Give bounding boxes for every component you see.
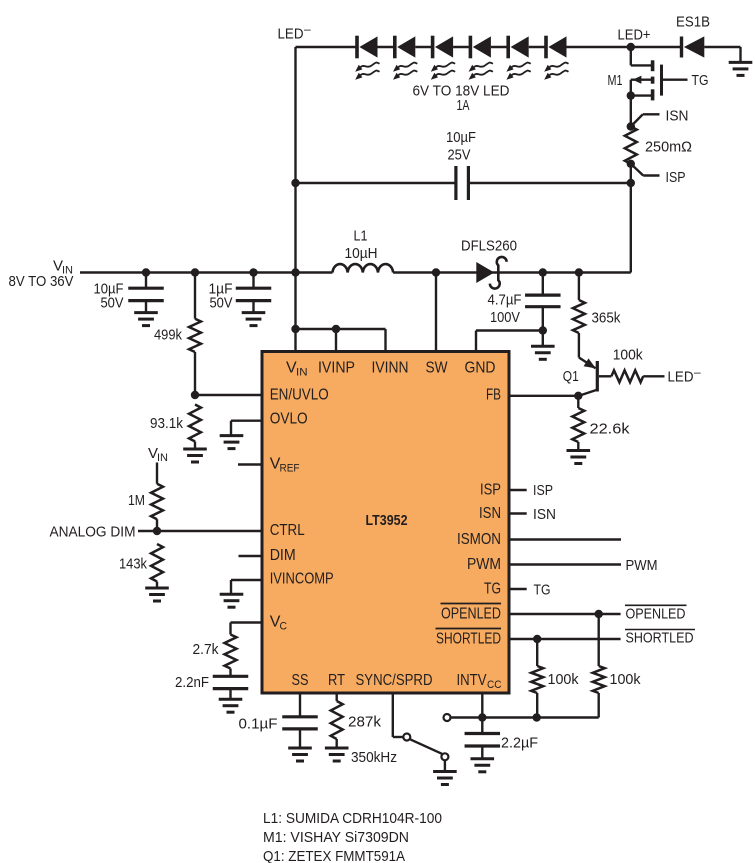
- resistor 93.1k UVLO bottom: [150, 405, 201, 450]
- wire LED- rail down to VIN pin: [294, 47, 296, 352]
- svg-text:LT3952: LT3952: [366, 512, 408, 529]
- svg-text:Q1: ZETEX FMMT591A: Q1: ZETEX FMMT591A: [263, 848, 405, 863]
- wire M1 source to ISN: [630, 96, 632, 127]
- LED D3: [431, 36, 455, 80]
- wire ISP stub: [509, 482, 553, 499]
- svg-text:LED+: LED+: [618, 27, 651, 44]
- node ANALOG DIM: [50, 524, 162, 541]
- node ISN sense: [627, 108, 689, 131]
- svg-text:PWM: PWM: [467, 556, 501, 573]
- svg-text:SW: SW: [426, 360, 449, 377]
- wire ISMON: [509, 538, 621, 540]
- svg-text:100V: 100V: [490, 309, 520, 326]
- inductor L1 10uH: [333, 228, 394, 273]
- transistor Q1 PNP FMMT591A: [563, 358, 612, 397]
- LED D4: [469, 36, 493, 80]
- svg-text:2.7k: 2.7k: [193, 641, 219, 658]
- capacitor 10uF 50V input: [94, 273, 164, 326]
- LED D6: [544, 36, 568, 80]
- svg-text:LED: LED: [668, 369, 694, 386]
- resistor 287k RT: [331, 693, 397, 766]
- switch SYNC/SPRD: [393, 693, 449, 760]
- ground at 2.2nF: [219, 699, 243, 712]
- diode DFLS260 schottky: [461, 238, 517, 289]
- svg-text:499k: 499k: [154, 327, 182, 344]
- svg-text:C: C: [280, 621, 288, 633]
- svg-text:ISP: ISP: [533, 482, 553, 499]
- ground at RT: [325, 748, 349, 761]
- svg-text:ISMON: ISMON: [457, 531, 501, 548]
- svg-text:CC: CC: [487, 679, 502, 691]
- svg-text:2.2nF: 2.2nF: [175, 674, 209, 691]
- ground at 93.1k: [183, 449, 207, 462]
- capacitor 2.2uF INTVCC: [465, 718, 538, 759]
- svg-text:1M: 1M: [128, 492, 145, 509]
- svg-text:–: –: [694, 365, 701, 379]
- svg-text:L1: L1: [354, 228, 368, 245]
- resistor 100k base: [611, 347, 664, 383]
- svg-text:IN: IN: [296, 367, 308, 379]
- capacitor 2.2nF VC: [175, 674, 248, 699]
- ground at IVINCOMP: [220, 580, 262, 607]
- svg-text:50V: 50V: [101, 295, 124, 312]
- wire GND pin: [476, 326, 547, 351]
- capacitor 1uF 50V input: [209, 273, 272, 326]
- svg-text:TG: TG: [534, 582, 551, 599]
- svg-text:SHORTLED: SHORTLED: [626, 630, 694, 647]
- svg-text:M1: VISHAY Si7309DN: M1: VISHAY Si7309DN: [263, 829, 409, 846]
- resistor 143k dim bottom: [119, 544, 163, 588]
- svg-text:TG: TG: [692, 72, 709, 89]
- ground at 2.2uF: [471, 759, 495, 772]
- svg-text:1A: 1A: [457, 97, 470, 114]
- wire INTVCC rail: [444, 693, 599, 722]
- svg-text:IVINN: IVINN: [372, 360, 409, 377]
- node ISP sense: [627, 160, 686, 186]
- svg-text:CTRL: CTRL: [270, 522, 305, 539]
- capacitor 4.7uF 100V output: [488, 268, 561, 330]
- ground at switch: [433, 760, 457, 784]
- svg-text:2.2µF: 2.2µF: [501, 735, 538, 752]
- transistor M1 PMOS Si7309DN: [608, 47, 688, 100]
- resistor 22.6k FB: [572, 396, 630, 451]
- wire PWM: [509, 557, 658, 574]
- svg-text:ISP: ISP: [666, 169, 686, 186]
- ground at GND pin: [531, 331, 555, 360]
- svg-text:ISN: ISN: [479, 505, 501, 522]
- svg-text:ES1B: ES1B: [676, 14, 710, 31]
- node EN/UVLO divider: [191, 391, 262, 399]
- note part list: [263, 810, 442, 863]
- svg-text:–: –: [304, 22, 311, 36]
- node LED-: [278, 22, 312, 43]
- svg-text:22.6k: 22.6k: [590, 421, 631, 438]
- svg-text:100k: 100k: [610, 671, 641, 688]
- wire LED- top rail: [296, 46, 631, 48]
- svg-text:93.1k: 93.1k: [150, 415, 183, 432]
- svg-text:OPENLED: OPENLED: [626, 606, 686, 623]
- svg-text:10µF: 10µF: [446, 129, 476, 146]
- svg-text:250mΩ: 250mΩ: [645, 139, 692, 156]
- svg-text:100k: 100k: [613, 347, 643, 364]
- wire SW node rail: [393, 268, 631, 276]
- svg-text:SYNC/SPRD: SYNC/SPRD: [356, 672, 433, 689]
- svg-text:350kHz: 350kHz: [351, 749, 397, 766]
- node LED- right: [668, 365, 702, 386]
- resistor 1M dim top: [128, 463, 163, 532]
- wire SW pin drop: [435, 273, 437, 352]
- svg-text:IVINP: IVINP: [318, 360, 355, 377]
- ground at 143k: [145, 588, 169, 601]
- svg-text:287k: 287k: [348, 714, 382, 731]
- svg-text:TG: TG: [484, 581, 501, 598]
- svg-text:OVLO: OVLO: [270, 411, 308, 428]
- svg-text:IN: IN: [157, 452, 168, 464]
- wire VREF stub: [238, 463, 262, 465]
- svg-text:143k: 143k: [119, 556, 147, 573]
- resistor 100k shortled: [531, 639, 579, 718]
- svg-text:PWM: PWM: [626, 557, 658, 574]
- resistor 365k: [573, 268, 621, 357]
- svg-text:IVINCOMP: IVINCOMP: [270, 571, 334, 588]
- svg-text:8V TO 36V: 8V TO 36V: [9, 273, 74, 290]
- diode ES1B: [631, 14, 741, 58]
- ground at 22.6k: [567, 451, 591, 464]
- svg-text:ISN: ISN: [533, 506, 556, 523]
- svg-text:DIM: DIM: [270, 547, 296, 564]
- label LED string rating: [413, 83, 510, 115]
- svg-text:100k: 100k: [548, 671, 579, 688]
- resistor 250mOhm sense: [625, 127, 692, 164]
- svg-text:INTV: INTV: [457, 672, 487, 689]
- wire coupling line: [291, 179, 631, 187]
- LED D2: [393, 36, 417, 80]
- ground at OVLO: [220, 421, 262, 449]
- LED D1: [355, 36, 379, 80]
- svg-text:0.1µF: 0.1µF: [239, 716, 278, 733]
- wire SHORTLED: [509, 630, 695, 647]
- LED D5: [506, 36, 530, 80]
- wire VIN rail: [80, 268, 333, 276]
- wire ISP down to output corner: [627, 164, 635, 273]
- svg-text:GND: GND: [465, 360, 496, 377]
- IC U1 LT3952: [262, 352, 509, 694]
- node TG gate: [692, 72, 709, 89]
- ground at SS cap: [288, 748, 312, 761]
- svg-text:LED: LED: [278, 26, 304, 43]
- capacitor 10uF 25V: [446, 129, 476, 200]
- svg-text:50V: 50V: [210, 295, 233, 312]
- svg-text:Q1: Q1: [563, 368, 579, 385]
- node LED+: [618, 27, 651, 52]
- svg-text:SS: SS: [292, 672, 309, 689]
- node VIN to dimming divider: [148, 445, 168, 464]
- svg-text:SHORTLED: SHORTLED: [436, 631, 501, 648]
- wire TG stub: [509, 582, 551, 599]
- wire ISN stub: [509, 506, 556, 523]
- svg-text:FB: FB: [486, 387, 501, 404]
- wire IVIN tie line: [291, 325, 385, 352]
- svg-text:ISP: ISP: [480, 482, 501, 499]
- svg-text:DFLS260: DFLS260: [461, 238, 517, 255]
- wire OPENLED: [509, 605, 687, 622]
- svg-text:L1: SUMIDA CDRH104R-100: L1: SUMIDA CDRH104R-100: [263, 810, 442, 827]
- svg-text:25V: 25V: [448, 147, 471, 164]
- svg-text:ISN: ISN: [666, 108, 689, 125]
- svg-text:10µH: 10µH: [345, 245, 378, 262]
- ground at ES1B: [729, 47, 753, 75]
- wire CTRL: [157, 530, 262, 532]
- svg-text:M1: M1: [608, 72, 623, 89]
- svg-text:RT: RT: [328, 672, 345, 689]
- svg-text:EN/UVLO: EN/UVLO: [270, 387, 329, 404]
- capacitor 0.1uF SS: [239, 693, 318, 748]
- resistor 499k UVLO top: [154, 273, 201, 396]
- svg-text:365k: 365k: [592, 310, 621, 327]
- svg-text:ANALOG DIM: ANALOG DIM: [50, 524, 136, 541]
- wire FB: [509, 392, 583, 400]
- wire DIM stub: [239, 555, 263, 557]
- svg-text:4.7µF: 4.7µF: [488, 292, 522, 309]
- resistor 2.7k VC: [193, 623, 263, 677]
- svg-text:REF: REF: [280, 463, 300, 475]
- svg-text:OPENLED: OPENLED: [441, 606, 501, 623]
- node VIN input: [9, 258, 74, 291]
- resistor 100k openled: [593, 614, 641, 718]
